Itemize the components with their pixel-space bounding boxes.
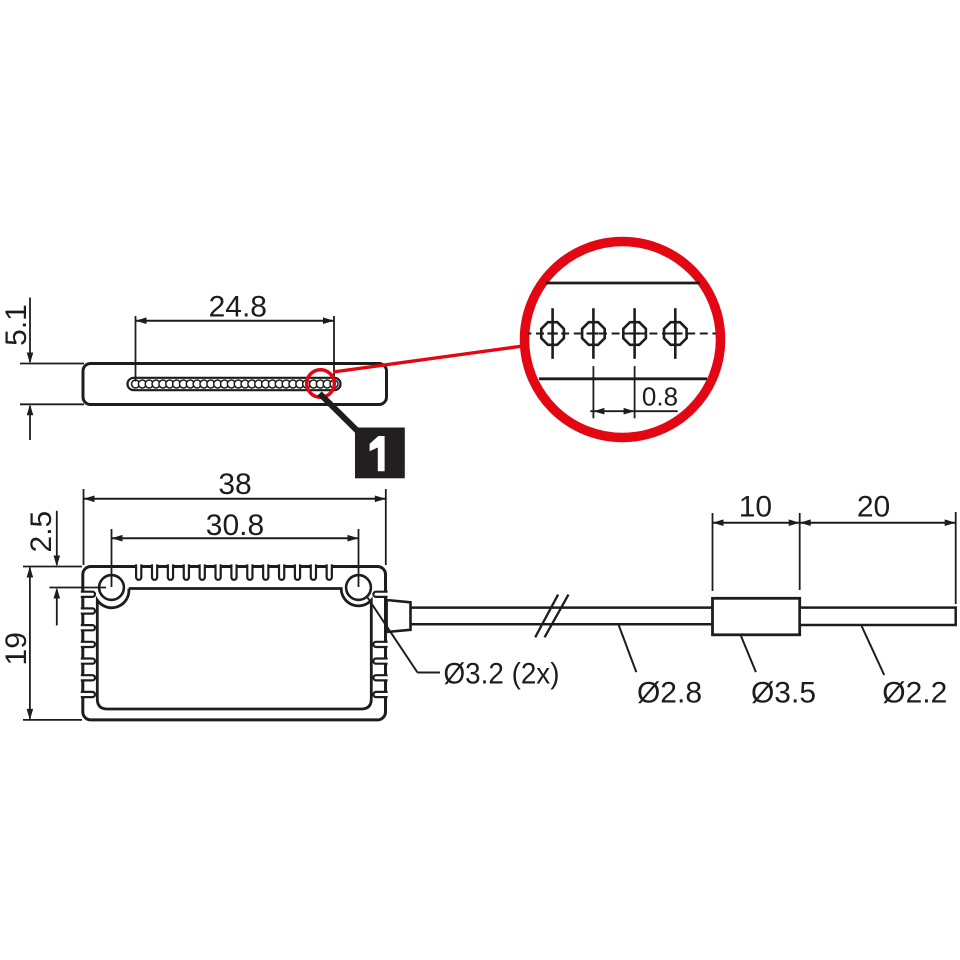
callout box 1 [355,428,405,479]
svg-text:Ø2.8: Ø2.8 [637,677,702,710]
inner cavity outline [97,589,371,710]
svg-text:5.1: 5.1 [0,304,33,346]
cable break symbol [535,595,568,638]
svg-text:19: 19 [0,632,33,665]
left serration slots [81,592,95,697]
svg-text:30.8: 30.8 [206,509,264,542]
side view body [83,364,387,405]
dimension 10 [713,491,800,591]
top serration slots [136,564,332,579]
leader and label dia 2.2 [862,626,948,710]
detail fibers [541,308,686,359]
dimension 24.8 [136,291,335,382]
svg-text:10: 10 [739,491,772,524]
dimension 30.8 [112,509,359,587]
svg-text:Ø3.2 (2x): Ø3.2 (2x) [444,658,560,691]
leader and label dia 3.5 [741,636,816,710]
dimension 38 [84,468,386,565]
red marker circle small [307,370,335,398]
red pointer line [333,346,525,372]
slot [128,378,341,390]
svg-text:20: 20 [857,491,890,524]
right serration slots [373,592,387,697]
dimension 2.5 [23,511,106,626]
dimension 20 [800,491,956,604]
mounting hole right [346,575,371,600]
detail top edge [546,282,700,285]
dimension 19 [0,567,82,720]
leader and label dia 2.8 [619,625,702,709]
fiber hole row (30 holes) [132,380,338,388]
svg-text:Ø2.2: Ø2.2 [882,677,947,710]
svg-text:2.5: 2.5 [25,511,58,553]
svg-text:24.8: 24.8 [209,291,267,324]
leader and label dia 3.2 (2x) [368,598,560,691]
mounting hole left [99,575,124,600]
detail dimension 0.8 [590,366,678,418]
front view body [83,567,386,720]
svg-text:38: 38 [218,468,251,501]
dimension 5.1 [0,298,84,441]
cable bottom line [411,623,713,626]
callout leader thick [320,394,357,431]
svg-text:0.8: 0.8 [642,382,678,412]
strain relief boot [387,600,411,632]
cable top line [411,606,713,609]
fiber tip [800,608,956,625]
detail centerline dashed [528,333,716,335]
ferrule [713,598,800,635]
detail view circle [525,242,721,438]
detail bottom edge [539,377,707,380]
svg-text:Ø3.5: Ø3.5 [751,677,816,710]
